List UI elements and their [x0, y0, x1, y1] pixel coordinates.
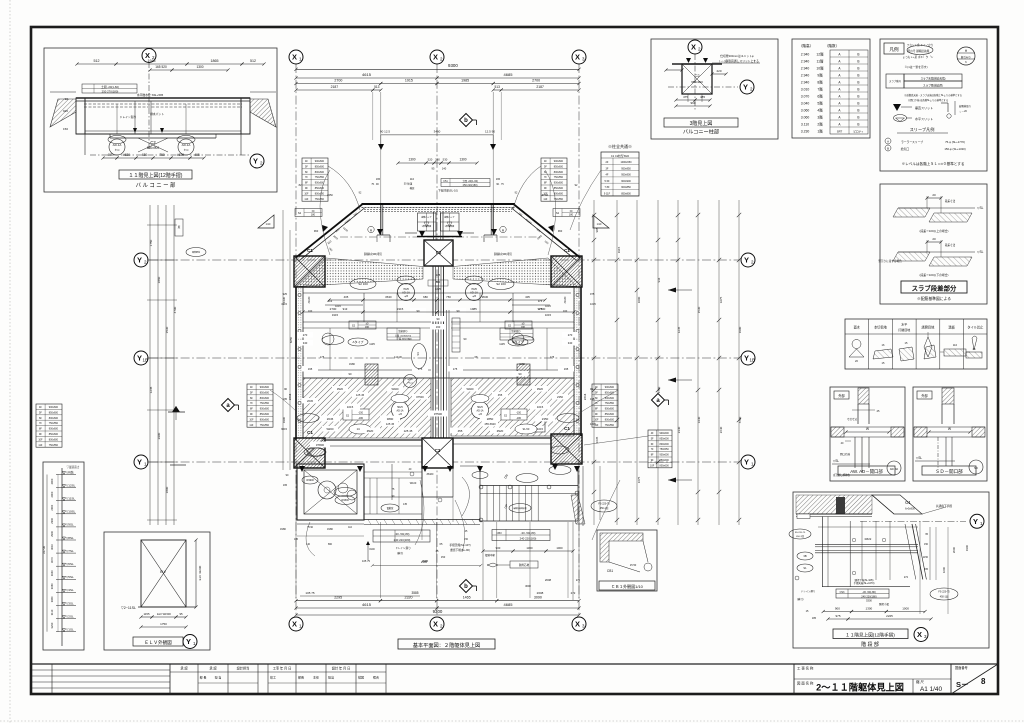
right dimension cluster	[593, 200, 595, 525]
svg-text:11F: 11F	[543, 198, 547, 201]
axis bubbles left	[134, 253, 148, 267]
svg-text:3230: 3230	[50, 622, 54, 628]
slab step label	[901, 281, 967, 293]
svg-text:踊場下端(SL-905): 踊場下端(SL-905)	[855, 578, 874, 582]
svg-text:3275: 3275	[719, 296, 723, 303]
svg-text:S1: S1	[803, 566, 807, 570]
right side arrows	[668, 288, 676, 293]
svg-text:2640: 2640	[719, 426, 723, 433]
svg-text:b: b	[464, 584, 468, 590]
svg-text:#920: #920	[537, 387, 543, 391]
svg-text:▽6SL: ▽6SL	[66, 562, 74, 566]
svg-text:7階: 7階	[817, 86, 823, 91]
table leader curves	[328, 166, 360, 210]
svg-text:設計担当: 設計担当	[237, 666, 250, 671]
svg-text:CS3: CS3	[840, 591, 845, 594]
svg-text:750x550: 750x550	[605, 424, 615, 427]
svg-text:150: 150	[924, 543, 929, 546]
svg-text:3.010: 3.010	[801, 87, 810, 91]
svg-text:2295: 2295	[334, 596, 342, 600]
svg-text:1015: 1015	[590, 422, 596, 426]
svg-text:1865: 1865	[211, 59, 219, 63]
svg-text:125 45: 125 45	[386, 422, 395, 426]
svg-text:2900: 2900	[157, 432, 161, 439]
axis Y1 chain (stair box)	[860, 520, 966, 522]
upper stippled slab right	[453, 258, 577, 287]
svg-text:#630: #630	[482, 295, 489, 299]
svg-text:240 220(180): 240 220(180)	[394, 538, 411, 542]
svg-text:180: 180	[521, 326, 526, 329]
svg-text:270: 270	[303, 333, 308, 337]
svg-text:475: 475	[683, 95, 688, 99]
svg-text:踊場小梁: 踊場小梁	[879, 602, 890, 606]
svg-text:X: X	[292, 53, 297, 62]
C2 column section	[682, 64, 712, 94]
svg-text:SRT: SRT	[837, 129, 843, 133]
svg-text:S－: S－	[956, 680, 969, 689]
svg-text:土間 -20(1-60): 土間 -20(1-60)	[462, 179, 478, 183]
svg-text:925: 925	[283, 292, 288, 296]
svg-text:800x600: 800x600	[315, 192, 325, 195]
svg-text:20: 20	[932, 237, 936, 241]
svg-text:3.070: 3.070	[801, 94, 810, 98]
svg-text:513: 513	[495, 85, 501, 89]
svg-text:900x600: 900x600	[660, 432, 670, 435]
svg-text:Y: Y	[137, 354, 142, 363]
svg-text:＊B: ＊B	[404, 295, 408, 298]
svg-text:2700: 2700	[532, 79, 540, 83]
svg-text:#7800: #7800	[316, 443, 324, 447]
svg-text:廻縁材(3M)埋打: 廻縁材(3M)埋打	[364, 252, 383, 256]
svg-text:75-φ (SL+1770): 75-φ (SL+1770)	[945, 140, 965, 144]
left dimension cluster	[149, 205, 151, 525]
svg-text:4615: 4615	[362, 602, 372, 607]
svg-text:竣工: 竣工	[270, 675, 276, 680]
section marker a right	[652, 394, 665, 407]
svg-text:1300: 1300	[866, 607, 873, 611]
svg-text:1750: 1750	[160, 622, 167, 626]
svg-text:#630: #630	[123, 153, 130, 157]
svg-text:X: X	[292, 620, 297, 629]
svg-text:1800: 1800	[165, 486, 169, 493]
svg-text:書斎下端(SL-90): 書斎下端(SL-90)	[450, 548, 470, 552]
svg-text:450-1回: 450-1回	[600, 506, 609, 510]
svg-text:ＥＬＶ外観図: ＥＬＶ外観図	[144, 639, 172, 646]
svg-text:530: 530	[443, 157, 448, 161]
svg-text:(→□)鉄筋買通しスリットとする: (→□)鉄筋買通しスリットとする	[719, 59, 759, 63]
svg-text:-150: -150	[516, 412, 522, 415]
svg-text:2～１１階躯体見上図: 2～１１階躯体見上図	[816, 682, 904, 693]
svg-text:#8160: #8160	[427, 473, 434, 476]
svg-text:195: 195	[283, 484, 288, 487]
vertical oval S4	[412, 344, 427, 369]
stair plan structure	[821, 517, 823, 588]
svg-text:750x550: 750x550	[49, 422, 59, 425]
svg-text:#630: #630	[177, 153, 184, 157]
svg-text:3.230: 3.230	[801, 129, 810, 133]
leader curves bottom	[306, 522, 315, 556]
svg-text:1000: 1000	[556, 546, 563, 550]
page scan edge bottom	[0, 720, 1024, 722]
svg-text:900x600: 900x600	[554, 182, 564, 185]
svg-text:慢勉中家: 慢勉中家	[485, 553, 496, 557]
svg-text:850x600: 850x600	[554, 165, 564, 168]
svg-text:3090: 3090	[525, 584, 531, 588]
stair flight diagonal	[571, 495, 585, 524]
svg-text:3040: 3040	[50, 570, 54, 576]
svg-text:3585: 3585	[411, 591, 418, 595]
svg-text:１１階見上図(12階手摺): １１階見上図(12階手摺)	[845, 632, 895, 639]
axis Y1 bubble (ELV box)	[183, 635, 197, 649]
svg-text:220: 220	[716, 69, 721, 73]
svg-text:3890: 3890	[387, 417, 394, 421]
svg-text:ㇾ－20: ㇾ－20	[959, 110, 967, 113]
big hatched slab band	[303, 378, 431, 438]
svg-text:1915: 1915	[332, 313, 339, 317]
svg-text:4685: 4685	[504, 602, 514, 607]
svg-text:誘発目地: 誘発目地	[922, 325, 936, 330]
svg-text:900: 900	[496, 546, 501, 550]
svg-text:W920: W920	[466, 387, 474, 391]
svg-text:2187: 2187	[536, 85, 544, 89]
AD circles	[398, 284, 415, 301]
floor level strip	[43, 462, 84, 650]
svg-text:1900: 1900	[965, 544, 969, 551]
stair box label	[833, 629, 908, 639]
svg-text:3460: 3460	[434, 130, 441, 134]
svg-text:承 認: 承 認	[180, 666, 188, 671]
flight dim cluster	[929, 527, 931, 580]
small boxed tags inside plan	[349, 321, 376, 329]
legend box (hanrei)	[880, 39, 987, 171]
svg-text:水平: 水平	[901, 322, 907, 327]
interior annotation ovals	[350, 279, 376, 290]
svg-text:＊C: ＊C	[114, 148, 120, 152]
AW AD opening detail box	[830, 387, 905, 481]
svg-text:-180: -180	[516, 417, 522, 420]
CB1 elevation box	[597, 530, 657, 591]
svg-text:1150: 1150	[923, 556, 929, 559]
svg-text:凡例: 凡例	[889, 46, 899, 53]
column C1 top-left	[294, 256, 325, 287]
svg-text:S2: S2	[346, 414, 350, 418]
column detail box (3F balcony column)	[651, 39, 778, 139]
svg-text:給気口: 給気口	[901, 147, 910, 151]
bottom corridor edge	[364, 519, 480, 521]
svg-text:485: 485	[700, 95, 705, 99]
svg-text:1465: 1465	[463, 596, 471, 600]
svg-text:2.940: 2.940	[801, 59, 810, 63]
svg-text:340: 340	[568, 341, 573, 345]
svg-text:排水パット: 排水パット	[150, 112, 164, 116]
svg-text:▽9SL: ▽9SL	[66, 523, 74, 527]
svg-text:960: 960	[314, 229, 319, 233]
svg-text:165: 165	[376, 178, 381, 181]
svg-text:B: B	[857, 66, 859, 70]
svg-text:800x600: 800x600	[260, 397, 270, 400]
svg-text:浴室廻り: 浴室廻り	[398, 329, 408, 333]
svg-text:455: 455	[498, 393, 503, 397]
svg-text:2225: 2225	[886, 614, 893, 618]
svg-text:1985: 1985	[470, 307, 477, 311]
svg-text:900x850: 900x850	[621, 186, 631, 189]
svg-text:ＳＤ－開口部: ＳＤ－開口部	[935, 468, 963, 475]
svg-text:C1: C1	[307, 248, 313, 253]
svg-text:850x600: 850x600	[260, 413, 270, 416]
svg-text:512: 512	[94, 59, 100, 63]
svg-text:1000: 1000	[637, 296, 641, 303]
svg-text:図 面 名 称: 図 面 名 称	[797, 681, 814, 686]
interior partition lines upper	[303, 321, 431, 323]
svg-text:▽5SL: ▽5SL	[66, 575, 74, 579]
svg-text:91-50: 91-50	[523, 427, 530, 431]
svg-text:6015: 6015	[281, 427, 287, 431]
bottom extension lines	[379, 522, 381, 598]
svg-text:S2 160: S2 160	[496, 282, 506, 286]
svg-text:▽10SL: ▽10SL	[66, 510, 76, 514]
svg-text:▽12SL: ▽12SL	[66, 483, 76, 487]
svg-text:250 270(180): 250 270(180)	[102, 89, 119, 93]
svg-text:405: 405	[525, 295, 530, 299]
svg-text:4階: 4階	[817, 107, 823, 112]
svg-text:(段差＝100以上の場合): (段差＝100以上の場合)	[920, 229, 949, 233]
lower area annotations	[373, 530, 430, 542]
svg-text:ELV 42290: ELV 42290	[198, 565, 202, 580]
svg-text:部長: 部長	[298, 675, 304, 680]
svg-text:浴室廻り: 浴室廻り	[511, 329, 521, 333]
svg-text:1015: 1015	[545, 304, 551, 308]
svg-text:b: b	[464, 118, 468, 124]
svg-text:405: 405	[344, 295, 349, 299]
svg-text:#180: #180	[349, 362, 355, 366]
svg-text:▽1SL: ▽1SL	[66, 628, 74, 632]
axis X3 bubble (stair box)	[914, 628, 928, 642]
svg-text:800x600: 800x600	[660, 443, 670, 446]
svg-text:180: 180	[311, 214, 316, 217]
svg-text:A1 1/40: A1 1/40	[920, 686, 942, 693]
svg-text:手摺天端(SL-10?): 手摺天端(SL-10?)	[449, 543, 470, 547]
svg-text:10F: 10F	[650, 464, 655, 467]
svg-text:2700: 2700	[330, 307, 337, 311]
svg-text:95: 95	[179, 612, 183, 616]
svg-text:CB1: CB1	[607, 569, 613, 573]
svg-text:スラブ階号: スラブ階号	[889, 79, 902, 83]
legend slit symbols	[893, 104, 901, 111]
svg-text:2900: 2900	[50, 530, 54, 536]
svg-text:11F: 11F	[249, 424, 253, 427]
svg-text:1300: 1300	[196, 65, 203, 69]
svg-text:10F: 10F	[249, 418, 254, 421]
axis X2 bubble (column box)	[694, 54, 696, 110]
svg-text:10F: 10F	[38, 438, 43, 441]
svg-text:3060: 3060	[50, 583, 54, 589]
svg-text:944: 944	[657, 277, 661, 282]
svg-text:S2: S2	[556, 211, 560, 215]
svg-text:165: 165	[496, 178, 501, 181]
svg-text:段差寸法: 段差寸法	[945, 199, 956, 203]
svg-text:90 . 75: 90 . 75	[496, 183, 504, 186]
bottom edge walls between columns	[325, 439, 422, 441]
svg-text:※配筋基準図による: ※配筋基準図による	[917, 296, 951, 301]
axis X2 bubble (balcony box)	[148, 62, 150, 150]
svg-text:860: 860	[328, 543, 333, 546]
sleeve legend	[897, 132, 948, 134]
ELV elevation box	[104, 532, 210, 650]
svg-text:AD-1A: AD-1A	[396, 410, 403, 413]
svg-text:S2 160: S2 160	[358, 282, 368, 286]
svg-text:▽2SL: ▽2SL	[66, 614, 74, 618]
svg-text:3.110: 3.110	[801, 122, 809, 126]
svg-text:1530: 1530	[697, 306, 701, 313]
svg-text:850x600: 850x600	[554, 187, 564, 190]
svg-text:30 無漢: 30 無漢	[404, 182, 413, 186]
svg-text:B: B	[857, 101, 859, 105]
svg-text:1530: 1530	[165, 326, 169, 333]
column C2 top-center	[424, 240, 453, 266]
axis Y2 bubble (balcony box)	[90, 154, 250, 156]
chamfer wall right	[514, 205, 580, 258]
svg-text:▽SL: ▽SL	[916, 456, 923, 460]
svg-text:1790: 1790	[657, 386, 661, 393]
top dimension lines	[296, 68, 579, 70]
svg-text:Y: Y	[137, 256, 142, 265]
svg-text:タイル芯止: タイル芯止	[967, 325, 984, 330]
svg-text:出隅基取り: 出隅基取り	[959, 104, 972, 108]
svg-text:溝板: 溝板	[948, 325, 955, 330]
svg-text:ピロティ: ピロティ	[853, 129, 864, 133]
left exterior wall	[295, 287, 297, 440]
svg-text:C2: C2	[436, 250, 442, 255]
svg-text:W1500: W1500	[341, 499, 349, 502]
svg-text:G1: G1	[905, 500, 911, 505]
svg-text:#920: #920	[367, 429, 374, 433]
svg-text:FS-220-75: FS-220-75	[938, 591, 950, 594]
ELV label	[133, 637, 183, 646]
svg-text:12階: 12階	[816, 51, 824, 56]
svg-text:175: 175	[550, 355, 555, 359]
svg-text:750x550: 750x550	[260, 402, 270, 405]
svg-text:1015: 1015	[590, 302, 596, 306]
svg-text:開口右端: 開口右端	[840, 452, 851, 456]
stair area bottom-right	[480, 485, 578, 487]
svg-text:4615: 4615	[362, 72, 372, 77]
columns bottom row	[294, 438, 325, 468]
svg-text:150-φ (SL+1320): 150-φ (SL+1320)	[944, 147, 965, 151]
svg-text:Y: Y	[973, 517, 978, 526]
svg-text:図面番号: 図面番号	[955, 665, 968, 670]
svg-text:1135: 1135	[499, 342, 505, 346]
svg-text:X: X	[691, 43, 696, 52]
svg-text:S2: S2	[298, 211, 302, 215]
svg-text:5300: 5300	[866, 599, 872, 603]
svg-text:2700: 2700	[539, 307, 546, 311]
svg-text:1000: 1000	[902, 607, 909, 611]
svg-text:(段差＝100以下の場合): (段差＝100以下の場合)	[920, 273, 949, 277]
svg-text:(符の号 顔輸送先端: (符の号 顔輸送先端	[907, 49, 930, 53]
svg-text:CB3: CB3	[496, 531, 502, 535]
svg-text:#180: #180	[327, 527, 333, 531]
svg-text:11F: 11F	[304, 198, 308, 201]
svg-text:250 220(180): 250 220(180)	[463, 184, 478, 187]
svg-text:975: 975	[590, 292, 595, 296]
svg-text:3440: 3440	[697, 416, 701, 423]
svg-text:W#20: W#20	[326, 427, 334, 431]
svg-text:11F: 11F	[38, 444, 42, 447]
axis Y1 bubble (stair box)	[970, 514, 984, 528]
svg-text:C1 C2柱型 BxD: C1 C2柱型 BxD	[611, 154, 629, 158]
svg-text:4790: 4790	[173, 306, 177, 313]
svg-text:125 45: 125 45	[404, 429, 413, 433]
svg-text:B: B	[857, 94, 859, 98]
svg-text:240 220(180): 240 220(180)	[861, 594, 877, 598]
svg-text:9300: 9300	[448, 63, 458, 68]
AW AD label	[838, 466, 895, 475]
svg-text:Y: Y	[744, 256, 749, 265]
svg-text:8250: 8250	[289, 336, 293, 343]
svg-text:140: 140	[442, 167, 447, 171]
central shaft walls	[432, 266, 434, 438]
svg-text:C1: C1	[564, 426, 570, 431]
svg-text:4F: 4F	[606, 174, 609, 177]
svg-text:廻縁材(3M)埋打: 廻縁材(3M)埋打	[494, 252, 513, 256]
svg-text:3階: 3階	[817, 114, 823, 119]
svg-text:1015: 1015	[537, 427, 543, 431]
svg-text:180: 180	[365, 326, 370, 329]
svg-text:800x600: 800x600	[260, 418, 270, 421]
svg-text:工事 年 月 日: 工事 年 月 日	[273, 666, 292, 671]
svg-text:1900: 1900	[282, 416, 286, 423]
escape hatch tables	[418, 213, 437, 231]
svg-text:1155: 1155	[143, 612, 149, 616]
svg-text:A: A	[887, 140, 889, 144]
svg-text:2F: 2F	[606, 161, 609, 164]
svg-text:※(1は一筆を示す): ※(1は一筆を示す)	[905, 65, 928, 69]
svg-text:272: 272	[904, 576, 909, 579]
building outline: top balcony bar	[362, 203, 516, 205]
svg-text:8: 8	[981, 677, 986, 686]
svg-text:▽4SL: ▽4SL	[66, 588, 74, 592]
svg-text:750: 750	[446, 295, 451, 299]
svg-text:設計 年 月 日: 設計 年 月 日	[332, 666, 351, 671]
svg-text:9 11F: 9 11F	[604, 193, 611, 196]
balcony slab section	[76, 97, 250, 99]
svg-text:1025: 1025	[435, 287, 441, 291]
balcony inner edge	[417, 236, 462, 238]
svg-text:(横引): (横引)	[797, 597, 804, 601]
svg-text:-150: -150	[358, 412, 364, 415]
svg-text:405: 405	[194, 153, 200, 157]
svg-text:900x600: 900x600	[49, 406, 59, 409]
svg-text:850x600: 850x600	[315, 165, 325, 168]
svg-text:1015: 1015	[537, 405, 544, 409]
svg-text:750x550: 750x550	[260, 424, 270, 427]
svg-text:850x600: 850x600	[315, 187, 325, 190]
svg-text:512: 512	[250, 59, 256, 63]
hatched wall stubs mid	[365, 364, 378, 385]
svg-text:Y: Y	[744, 458, 749, 467]
svg-text:▽SL: ▽SL	[977, 250, 984, 254]
svg-text:900x600: 900x600	[605, 408, 615, 411]
interior noise annotations	[332, 386, 348, 392]
svg-text:B: B	[857, 115, 859, 119]
balcony side wall stubs	[380, 205, 382, 235]
svg-text:▽SL: ▽SL	[833, 459, 840, 463]
svg-text:基本平面図：２階躯体見上図: 基本平面図：２階躯体見上図	[413, 641, 480, 649]
svg-text:▽R階: ▽R階	[66, 469, 73, 474]
svg-text:2900: 2900	[50, 517, 54, 523]
svg-text:11階: 11階	[817, 58, 825, 63]
svg-text:960: 960	[690, 101, 695, 105]
